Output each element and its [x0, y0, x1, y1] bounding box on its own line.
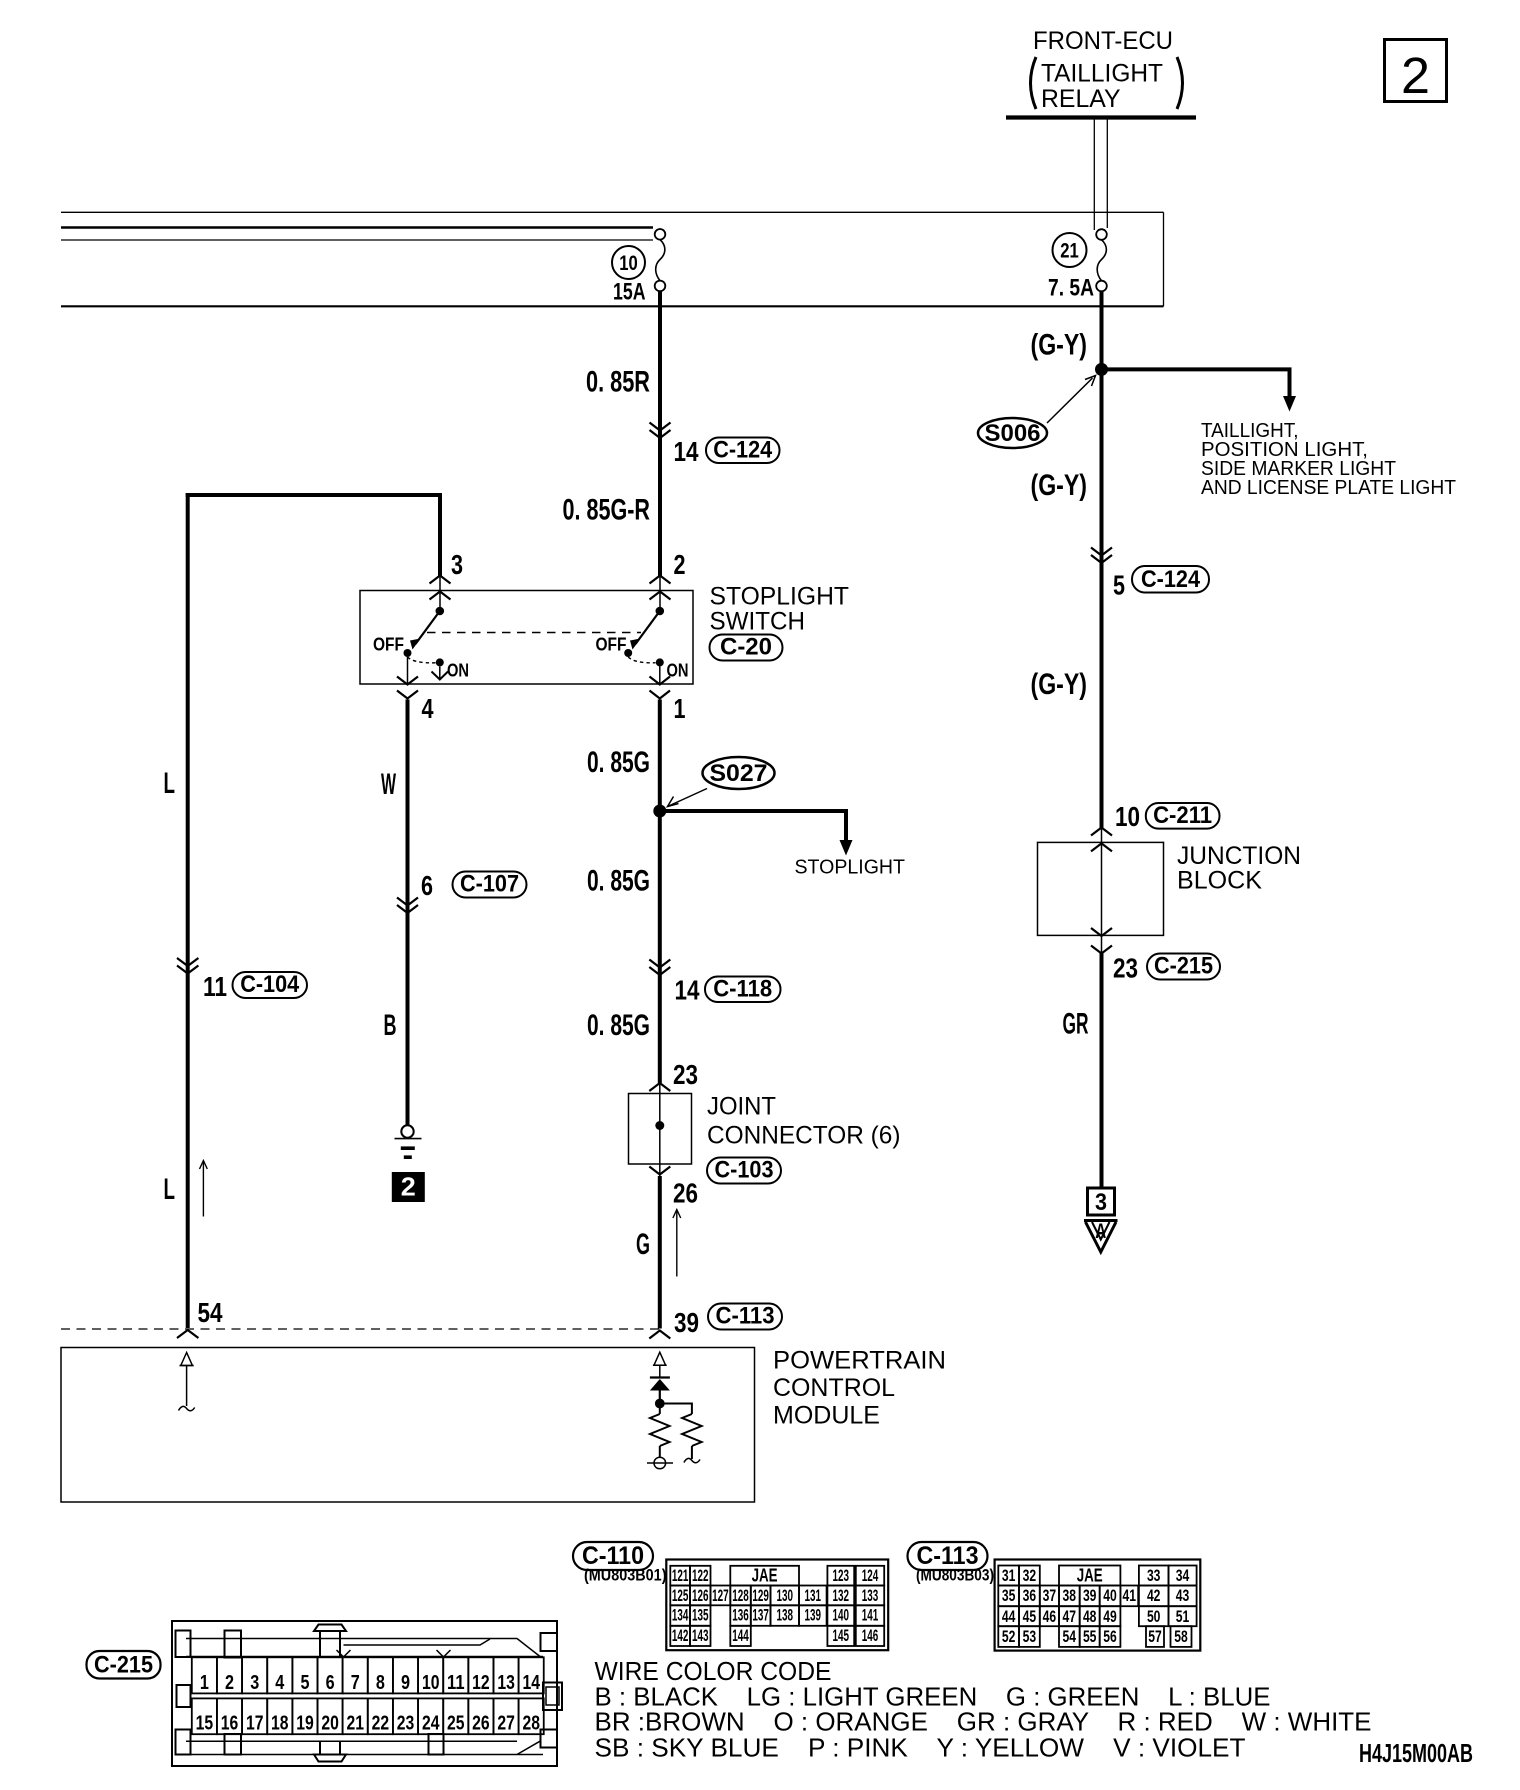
svg-text:0. 85G: 0. 85G: [587, 746, 650, 779]
wire L left branch vertical: [186, 493, 190, 1328]
svg-text:MODULE: MODULE: [773, 1402, 880, 1430]
connector label C-113 (table): [908, 1542, 988, 1570]
svg-text:C-103: C-103: [715, 1157, 774, 1184]
pin 4 label: [422, 693, 434, 724]
flow arrow beside L wire: [200, 1161, 208, 1217]
wire label (G-Y) 3: [1031, 668, 1088, 701]
svg-text:133: 133: [862, 1586, 879, 1605]
svg-text:49: 49: [1103, 1607, 1117, 1626]
switch left ON label: [447, 660, 469, 681]
svg-text:A: A: [1095, 1220, 1106, 1243]
pin 2 label: [674, 549, 686, 580]
switch left OFF label: [373, 634, 404, 655]
svg-text:17: 17: [246, 1713, 264, 1735]
svg-text:8: 8: [376, 1672, 385, 1694]
svg-text:45: 45: [1023, 1607, 1037, 1626]
wire color label G: [636, 1228, 650, 1261]
svg-text:C-124: C-124: [1141, 566, 1201, 593]
fuse 21 symbol: [1096, 229, 1107, 291]
svg-text:14: 14: [675, 975, 700, 1006]
svg-text:21: 21: [1060, 239, 1079, 263]
pin 14 label (C-118): [675, 975, 700, 1006]
svg-text:JAE: JAE: [1077, 1565, 1103, 1585]
svg-text:SB : SKY BLUE P : PINK Y: SB : SKY BLUE P : PINK Y : YELLOW V : VI…: [595, 1733, 1246, 1763]
ground reference box 2 (black): [392, 1172, 425, 1203]
svg-text:121: 121: [672, 1566, 689, 1585]
wire color code line 3: [595, 1733, 1246, 1763]
pin 23 label (C-215): [1113, 953, 1138, 984]
svg-text:15: 15: [196, 1713, 214, 1735]
svg-text:0. 85G: 0. 85G: [587, 865, 650, 898]
svg-text:GR: GR: [1063, 1008, 1089, 1041]
junction block chevrons top: [1091, 828, 1112, 852]
svg-text:122: 122: [692, 1566, 709, 1585]
svg-text:20: 20: [321, 1713, 339, 1735]
connector ref C-118: [705, 976, 781, 1003]
svg-text:(G-Y): (G-Y): [1031, 329, 1088, 362]
svg-text:141: 141: [862, 1606, 879, 1625]
svg-text:47: 47: [1063, 1607, 1077, 1626]
svg-text:129: 129: [752, 1586, 769, 1605]
joint connector chevron top: [649, 1083, 670, 1091]
relay FRONT-ECU (TAILLIGHT RELAY) label: [1031, 27, 1183, 113]
svg-text:11: 11: [447, 1672, 465, 1694]
svg-text:C-118: C-118: [713, 976, 772, 1003]
svg-text:136: 136: [732, 1606, 749, 1625]
svg-text:51: 51: [1176, 1607, 1190, 1626]
switch pin 2 chevrons: [650, 576, 671, 600]
svg-text:SWITCH: SWITCH: [710, 608, 806, 636]
pin 11 label: [203, 971, 227, 1002]
stoplight branch wire with arrow: [660, 809, 853, 856]
wire label (G-Y) 1: [1031, 329, 1088, 362]
svg-text:S027: S027: [710, 760, 768, 787]
svg-text:2: 2: [674, 549, 686, 580]
svg-text:14: 14: [674, 436, 699, 467]
svg-text:3: 3: [1095, 1189, 1107, 1216]
wire color label B: [384, 1009, 397, 1042]
svg-text:JOINT: JOINT: [707, 1093, 776, 1121]
chevron at PCM pin 39: [649, 1331, 670, 1339]
svg-text:3: 3: [250, 1672, 259, 1694]
svg-text:55: 55: [1083, 1627, 1097, 1646]
connector ref C-20: [710, 634, 783, 661]
svg-text:3: 3: [451, 549, 463, 580]
svg-text:OFF: OFF: [596, 634, 627, 655]
pin 5 label: [1113, 570, 1125, 601]
pin 3 label: [451, 549, 463, 580]
switch mechanical link (dashed): [427, 632, 641, 634]
svg-text:40: 40: [1103, 1586, 1117, 1605]
svg-text:53: 53: [1023, 1627, 1037, 1646]
splice node S006 dot: [1095, 363, 1108, 376]
svg-text:15A: 15A: [613, 279, 646, 306]
switch left pole: [404, 592, 449, 685]
wire label 0.85G-R: [563, 494, 651, 527]
PCM pin 39 internal (diode and resistors): [647, 1352, 702, 1469]
svg-text:L: L: [164, 767, 176, 800]
svg-text:48: 48: [1083, 1607, 1097, 1626]
connector crossing C-124 pin 14 chevrons: [650, 423, 671, 439]
svg-text:C-104: C-104: [240, 971, 300, 998]
connector C-215 pin row 15-28: [192, 1698, 544, 1734]
PCM name: [773, 1347, 946, 1430]
svg-text:58: 58: [1174, 1627, 1188, 1646]
fuse rating 7.5A: [1048, 275, 1094, 302]
svg-text:130: 130: [777, 1586, 794, 1605]
connector C-215 pin row 1-14: [192, 1657, 544, 1694]
wire color label L (upper): [164, 767, 176, 800]
fuse rating 15A: [613, 279, 646, 306]
svg-text:C-107: C-107: [460, 871, 519, 898]
junction block box: [1038, 842, 1164, 935]
svg-text:125: 125: [672, 1586, 689, 1605]
svg-text:37: 37: [1043, 1586, 1057, 1605]
svg-text:0. 85G-R: 0. 85G-R: [563, 494, 651, 527]
svg-text:C-20: C-20: [720, 634, 772, 661]
svg-text:138: 138: [777, 1606, 794, 1625]
svg-text:ON: ON: [447, 660, 469, 681]
svg-text:(MU803B01): (MU803B01): [584, 1566, 667, 1585]
branch destination label TAILLIGHT etc: [1201, 419, 1456, 499]
svg-text:26: 26: [673, 1178, 698, 1209]
svg-text:142: 142: [672, 1626, 689, 1645]
svg-text:6: 6: [421, 870, 433, 901]
connector part number MU803B03: [916, 1566, 994, 1585]
power bus box: [61, 212, 1164, 306]
switch pin 3 chevrons: [430, 576, 451, 600]
svg-text:11: 11: [203, 971, 227, 1002]
svg-text:12: 12: [472, 1672, 490, 1694]
page reference box 2: [1385, 40, 1447, 105]
svg-text:54: 54: [198, 1297, 223, 1328]
svg-text:(G-Y): (G-Y): [1031, 469, 1088, 502]
svg-text:C-124: C-124: [713, 437, 773, 464]
wire 0.85G switch pin 1 to PCM: [658, 700, 662, 1329]
pin 14 label: [674, 436, 699, 467]
svg-text:10: 10: [619, 251, 638, 275]
svg-text:W: W: [381, 768, 396, 801]
wire label 0.85G (3): [587, 1009, 650, 1042]
svg-text:13: 13: [497, 1672, 515, 1694]
joint connector chevron bottom: [649, 1167, 670, 1175]
svg-text:126: 126: [692, 1586, 709, 1605]
branch destination label STOPLIGHT: [795, 856, 906, 879]
svg-text:52: 52: [1002, 1627, 1016, 1646]
svg-text:35: 35: [1002, 1586, 1016, 1605]
fuse 10 symbol: [655, 229, 666, 291]
splice node S027 dot: [653, 805, 666, 818]
svg-text:C-113: C-113: [716, 1303, 775, 1330]
svg-text:1: 1: [674, 693, 686, 724]
connector ref C-104: [233, 971, 308, 998]
svg-text:139: 139: [805, 1606, 822, 1625]
svg-text:18: 18: [271, 1713, 289, 1735]
connector ref C-107: [453, 871, 527, 898]
connector crossing C-118 chevrons: [649, 960, 670, 976]
svg-text:0. 85G: 0. 85G: [587, 1009, 650, 1042]
connector label C-110: [573, 1542, 653, 1570]
svg-text:56: 56: [1103, 1627, 1117, 1646]
svg-text:57: 57: [1148, 1627, 1162, 1646]
ground symbol: [395, 1125, 422, 1157]
switch name STOPLIGHT SWITCH: [710, 583, 850, 636]
svg-text:43: 43: [1176, 1586, 1190, 1605]
chevron at PCM pin 54: [177, 1330, 198, 1338]
svg-text:23: 23: [673, 1059, 698, 1090]
svg-text:4: 4: [422, 693, 434, 724]
joint connector box: [629, 1094, 692, 1165]
fuse number (21): [1053, 233, 1087, 267]
svg-text:127: 127: [712, 1586, 729, 1605]
wire label (G-Y) 2: [1031, 469, 1088, 502]
svg-text:STOPLIGHT: STOPLIGHT: [795, 856, 906, 879]
wire color label W: [381, 768, 396, 801]
svg-text:JAE: JAE: [752, 1565, 778, 1585]
flow arrow beside G wire: [673, 1210, 681, 1277]
connector table C-110: [666, 1560, 888, 1651]
powertrain control module box: [61, 1348, 755, 1503]
svg-text:21: 21: [346, 1713, 364, 1735]
svg-text:28: 28: [522, 1713, 540, 1735]
svg-text:FRONT-ECU: FRONT-ECU: [1033, 27, 1173, 55]
wire color code line 2: [595, 1707, 1372, 1737]
splice label S006: [978, 376, 1096, 449]
svg-text:6: 6: [326, 1672, 335, 1694]
relay bottom bar: [1006, 115, 1196, 119]
svg-text:2: 2: [401, 1172, 416, 1202]
wire color code title: [595, 1656, 832, 1686]
svg-text:137: 137: [752, 1606, 769, 1625]
svg-text:128: 128: [732, 1586, 749, 1605]
connector ref C-124 (right): [1132, 566, 1209, 593]
svg-text:54: 54: [1063, 1627, 1077, 1646]
switch right ON label: [667, 660, 689, 681]
svg-text:31: 31: [1002, 1566, 1016, 1585]
svg-text:24: 24: [422, 1713, 440, 1735]
svg-text:C-215: C-215: [1154, 953, 1213, 980]
svg-text:2: 2: [225, 1672, 234, 1694]
splice label S027: [668, 757, 775, 807]
svg-text:0. 85R: 0. 85R: [586, 366, 650, 399]
pin 54 label: [198, 1297, 223, 1328]
wire color label L (lower): [164, 1173, 176, 1206]
svg-text:38: 38: [1063, 1586, 1077, 1605]
svg-text:23: 23: [1113, 953, 1138, 984]
svg-text:10: 10: [422, 1672, 440, 1694]
connector ref C-103: [707, 1157, 781, 1184]
connector ref C-113: [708, 1303, 782, 1330]
svg-text:CONNECTOR (6): CONNECTOR (6): [707, 1122, 901, 1150]
svg-text:27: 27: [497, 1713, 515, 1735]
fuse number (10): [612, 246, 645, 279]
bus feed lines to fuse 10: [61, 228, 653, 241]
connector crossing C-104 chevrons: [177, 958, 198, 974]
svg-text:46: 46: [1043, 1607, 1057, 1626]
pin 23 label (joint connector): [673, 1059, 698, 1090]
svg-text:50: 50: [1147, 1607, 1161, 1626]
svg-text:G: G: [636, 1228, 650, 1261]
svg-text:143: 143: [692, 1626, 709, 1645]
svg-text:9: 9: [401, 1672, 410, 1694]
svg-text:131: 131: [805, 1586, 822, 1605]
junction block chevrons bottom: [1091, 928, 1112, 954]
wire relay to fuse 21 (double line): [1094, 120, 1107, 231]
svg-text:32: 32: [1023, 1566, 1037, 1585]
svg-text:134: 134: [672, 1606, 689, 1625]
connector table C-113: [995, 1560, 1201, 1651]
svg-text:23: 23: [397, 1713, 415, 1735]
svg-text:H4J15M00AB: H4J15M00AB: [1359, 1738, 1473, 1768]
svg-text:STOPLIGHT: STOPLIGHT: [710, 583, 850, 611]
svg-text:132: 132: [833, 1586, 850, 1605]
svg-text:2: 2: [1401, 47, 1430, 104]
svg-text:5: 5: [301, 1672, 310, 1694]
connector drawing C-215: [172, 1621, 562, 1766]
svg-text:146: 146: [862, 1626, 879, 1645]
svg-text:34: 34: [1176, 1566, 1190, 1585]
svg-text:AND LICENSE PLATE LIGHT: AND LICENSE PLATE LIGHT: [1201, 476, 1456, 499]
switch right pole: [624, 592, 664, 685]
pin 26 label: [673, 1178, 698, 1209]
connector label C-215: [87, 1651, 161, 1679]
wire color code line 1: [595, 1682, 1271, 1712]
switch pin 4 chevrons: [397, 677, 418, 699]
svg-text:124: 124: [862, 1566, 879, 1585]
wire label 0.85G (2): [587, 865, 650, 898]
page link triangle A: [1084, 1220, 1118, 1252]
svg-text:BLOCK: BLOCK: [1177, 867, 1262, 895]
svg-text:145: 145: [833, 1626, 850, 1645]
svg-text:TAILLIGHT: TAILLIGHT: [1041, 60, 1163, 88]
PCM pin 54 internal (arrow and continuation): [179, 1353, 195, 1411]
svg-text:41: 41: [1123, 1586, 1137, 1605]
svg-text:L: L: [164, 1173, 176, 1206]
wire from junction to switch pin 3: [186, 493, 440, 591]
pin 39 label: [674, 1307, 699, 1338]
svg-text:5: 5: [1113, 570, 1125, 601]
svg-text:144: 144: [732, 1626, 749, 1645]
switch right OFF label: [596, 634, 627, 655]
svg-text:4: 4: [275, 1672, 285, 1694]
svg-text:36: 36: [1023, 1586, 1037, 1605]
svg-text:OFF: OFF: [373, 634, 404, 655]
svg-text:S006: S006: [985, 420, 1041, 447]
wire label 0.85G (1): [587, 746, 650, 779]
svg-text:7. 5A: 7. 5A: [1048, 275, 1094, 302]
wire W switch pin 4 to ground: [406, 700, 410, 1126]
svg-text:14: 14: [522, 1672, 540, 1694]
wire G-Y fuse 21 to junction block: [1100, 291, 1104, 1188]
svg-text:10: 10: [1115, 801, 1140, 832]
svg-text:B: B: [384, 1009, 397, 1042]
pin 10 label: [1115, 801, 1140, 832]
pin 6 label: [421, 870, 433, 901]
stoplight switch box: [360, 591, 693, 685]
connector crossing C-107 chevrons: [397, 898, 418, 914]
page link box 3: [1088, 1188, 1115, 1216]
connector ref C-211: [1146, 802, 1220, 829]
taillight branch wire with arrow: [1102, 367, 1297, 411]
svg-text:CONTROL: CONTROL: [773, 1374, 895, 1402]
svg-text:(G-Y): (G-Y): [1031, 668, 1088, 701]
svg-text:1: 1: [200, 1672, 209, 1694]
svg-text:26: 26: [472, 1713, 490, 1735]
svg-text:22: 22: [372, 1713, 390, 1735]
connector ref C-215 (right): [1147, 953, 1220, 980]
connector part number MU803B01: [584, 1566, 667, 1585]
svg-text:(MU803B03): (MU803B03): [916, 1566, 994, 1585]
connector crossing C-124 pin 5 chevrons: [1091, 548, 1112, 564]
svg-text:19: 19: [296, 1713, 314, 1735]
svg-text:C-211: C-211: [1153, 802, 1212, 829]
svg-text:C-215: C-215: [94, 1652, 153, 1679]
svg-text:POWERTRAIN: POWERTRAIN: [773, 1347, 946, 1375]
switch pin 1 chevrons: [650, 677, 671, 699]
svg-text:7: 7: [351, 1672, 360, 1694]
dashed boundary line: [61, 1328, 664, 1330]
svg-text:135: 135: [692, 1606, 709, 1625]
svg-text:16: 16: [221, 1713, 239, 1735]
svg-text:42: 42: [1147, 1586, 1161, 1605]
svg-text:33: 33: [1147, 1566, 1161, 1585]
svg-text:123: 123: [833, 1566, 850, 1585]
pin 1 label: [674, 693, 686, 724]
svg-text:39: 39: [674, 1307, 699, 1338]
svg-text:39: 39: [1083, 1586, 1097, 1605]
wire label 0.85R: [586, 366, 650, 399]
svg-text:140: 140: [833, 1606, 850, 1625]
junction block name: [1177, 842, 1301, 895]
joint connector name: [707, 1093, 901, 1150]
svg-text:44: 44: [1002, 1607, 1016, 1626]
svg-text:RELAY: RELAY: [1041, 85, 1121, 113]
drawing number H4J15M00AB: [1359, 1738, 1473, 1768]
wire color label GR: [1063, 1008, 1089, 1041]
connector ref C-124: [706, 437, 780, 464]
wire 0.85R fuse 10 to stoplight switch pin 2: [658, 291, 662, 591]
svg-text:25: 25: [447, 1713, 465, 1735]
